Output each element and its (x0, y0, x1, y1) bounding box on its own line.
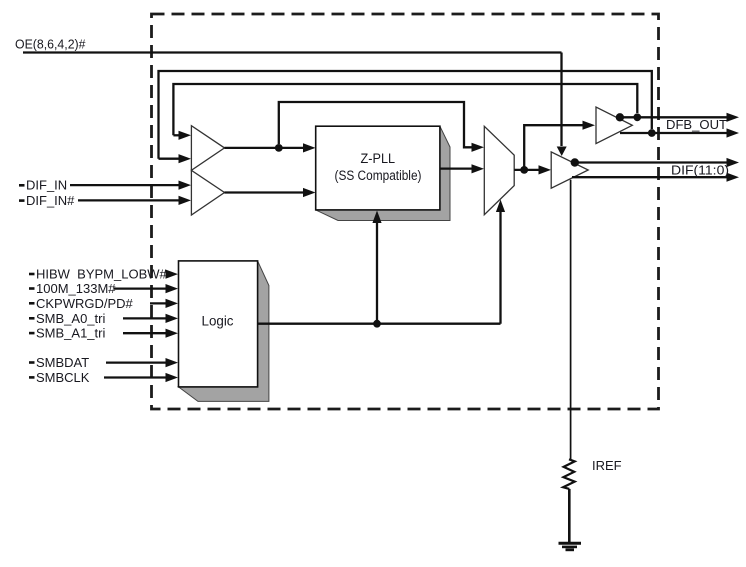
wire DIF lower line (572, 176, 727, 178)
arrowhead DFB_OUT lower (727, 128, 740, 137)
node FB2 junction on DFB upper line (633, 113, 641, 121)
svg-text:SMBDAT: SMBDAT (36, 355, 89, 370)
label SMB_A0_tri (29, 317, 35, 320)
svg-text:DIF_IN#: DIF_IN# (26, 193, 75, 208)
label SMB_A1_tri (29, 332, 35, 335)
Z-PLL block shadow (316, 126, 450, 220)
wire FB2 arrow segment into U1 (173, 134, 180, 136)
wire Z-PLL output to mux input 2 (440, 167, 473, 169)
wire mux output feed up to DFB buffer (524, 125, 584, 170)
label DIF_IN# (19, 199, 25, 202)
label HIBW BYPM_LOBW# (29, 273, 35, 276)
svg-text:CKPWRGD/PD#: CKPWRGD/PD# (36, 296, 134, 311)
svg-text:OE(8,6,4,2)#: OE(8,6,4,2)# (15, 37, 86, 52)
node DFB upper output tap (616, 113, 624, 121)
node logic bus junction to PLL (373, 320, 381, 328)
buffer U6 DIF output buffer (551, 152, 588, 188)
label SMBCLK (29, 376, 35, 379)
arrowhead DIF upper (727, 158, 740, 167)
arrowhead SMBCLK (166, 373, 179, 382)
mux U4 output select (484, 126, 514, 214)
ground (559, 542, 582, 545)
arrowhead DFB_OUT upper (727, 113, 740, 122)
wire DIF_IN into U2 (70, 184, 180, 186)
wire U1 output to Z-PLL (225, 147, 306, 149)
arrowhead FB1 into U1 lower input (179, 154, 192, 163)
label CKPWRGD/PD# (29, 302, 35, 305)
arrowhead mux output into DIF buffer (539, 165, 552, 174)
wire U2 output to Z-PLL (225, 191, 306, 193)
chip boundary dashed box (152, 14, 659, 409)
arrowhead HIBW (166, 270, 179, 279)
arrowhead SMB_A1_tri (166, 329, 179, 338)
arrowhead FB2 into U1 upper input (179, 131, 192, 140)
wire SMB_A1_tri into logic (123, 332, 168, 334)
svg-text:Logic: Logic (202, 313, 234, 329)
wire feedback net FB1 (from DFB_OUT lower line to U1 lower input) (159, 71, 652, 159)
wire DIF_IN# into U2 (78, 199, 180, 201)
node DIF upper output tap (571, 158, 579, 166)
svg-text:IREF: IREF (592, 458, 622, 473)
wire CKPWRGD/PD# into logic (150, 302, 168, 304)
arrowhead SMB_A0_tri (166, 314, 179, 323)
arrowhead DIF_IN# into U2 (179, 196, 192, 205)
svg-text:DFB_OUT: DFB_OUT (666, 117, 727, 132)
svg-text:Z-PLL: Z-PLL (361, 151, 396, 166)
wire mux select from logic (499, 212, 501, 324)
label 100M_133M# (29, 287, 35, 290)
wire DFB_OUT upper line (618, 116, 727, 118)
wire SMBCLK into logic (104, 376, 168, 378)
svg-text:HIBW BYPM_LOBW#: HIBW BYPM_LOBW# (36, 267, 168, 282)
arrowhead DIF lower (727, 173, 740, 182)
arrowhead REFBYP into mux input 1 (472, 143, 485, 152)
wire logic output bus (258, 323, 501, 325)
arrowhead SMBDAT (166, 358, 179, 367)
wire resistor to ground (568, 489, 571, 542)
svg-text:SMB_A1_tri: SMB_A1_tri (36, 326, 105, 341)
node junction U1 output / bypass tap (275, 144, 283, 152)
wire FB1 arrow segment into U1 (159, 158, 181, 160)
wire net REFBYP (U1 output bypass to mux upper input) (279, 102, 473, 147)
arrowhead U1 output into Z-PLL (303, 143, 316, 152)
wire OE net horizontal (23, 51, 562, 53)
wire HIBW into logic (166, 273, 168, 275)
label SMBDAT (29, 361, 35, 364)
wire IREF net from DIF buffer down (570, 180, 572, 460)
svg-text:SMBCLK: SMBCLK (36, 370, 90, 385)
svg-text:SMB_A0_tri: SMB_A0_tri (36, 311, 105, 326)
wire feedback net FB2 (from DFB_OUT upper line to U1 upper input) (173, 84, 637, 135)
wire SMB_A0_tri into logic (123, 317, 168, 319)
svg-text:DIF_IN: DIF_IN (26, 178, 67, 193)
wire Z-PLL bottom control input from logic bus (376, 222, 378, 322)
arrowhead CKPWRGD/PD# (166, 299, 179, 308)
resistor IREF zigzag (563, 459, 575, 489)
arrowhead 100M_133M# (166, 284, 179, 293)
arrowhead into DFB buffer (583, 121, 596, 130)
arrowhead Z-PLL output into mux input 2 (472, 164, 485, 173)
arrowhead OE into DIF buffer (557, 147, 567, 157)
label DIF_IN (19, 184, 25, 187)
op-amp U3 Z-PLL block (316, 126, 440, 210)
node FB1 junction on DFB lower line (648, 129, 656, 137)
arrowhead DIF_IN into U2 (179, 181, 192, 190)
buffer U2 (DIF_IN input buffer) (191, 170, 224, 215)
svg-text:DIF(11:0): DIF(11:0) (671, 163, 729, 178)
buffer U5 DFB output buffer (596, 107, 632, 144)
arrowhead logic bus into Z-PLL bottom (372, 211, 381, 224)
svg-text:(SS Compatible): (SS Compatible) (335, 168, 422, 183)
wire mux output to DIF buffer (514, 169, 541, 171)
wire 100M_133M# into logic (114, 287, 168, 289)
Logic block shadow (179, 261, 269, 402)
arrowhead mux select (496, 200, 505, 213)
svg-text:100M_133M#: 100M_133M# (36, 281, 116, 296)
wire DFB_OUT lower line (620, 132, 727, 134)
buffer U1 (reference input buffer) (191, 126, 224, 171)
node mux output junction (520, 166, 528, 174)
logic block U7 (179, 261, 258, 387)
wire SMBDAT into logic (106, 361, 168, 363)
wire OE net vertical drop to DIF output buffer (560, 53, 562, 147)
arrowhead U2 output into Z-PLL (303, 188, 316, 197)
wire DIF upper line (573, 161, 727, 163)
